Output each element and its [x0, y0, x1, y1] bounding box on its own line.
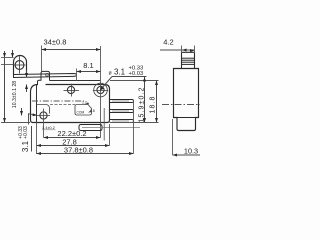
svg-text:4.2: 4.2: [163, 38, 173, 47]
boss lower: [37, 105, 50, 114]
dim stub left upper: [12, 50, 14, 58]
slot COM: [75, 105, 92, 116]
mounting hole upper: [97, 86, 104, 93]
svg-text:+0.03: +0.03: [23, 126, 29, 139]
terminal 2 slot: [112, 110, 129, 112]
svg-text:10.3: 10.3: [184, 146, 198, 155]
leader underline lower: [31, 126, 33, 152]
dim lever gap lower arrow: [26, 85, 28, 93]
hinge rivet: [46, 73, 49, 76]
extension roller top: [1, 57, 14, 59]
terminal 3 slot: [112, 120, 129, 122]
deck line: [50, 80, 101, 82]
extension 27.8 / 37.8 left: [36, 123, 38, 155]
extension 34 left: [41, 46, 43, 76]
svg-text:37.8±0.8: 37.8±0.8: [64, 145, 93, 154]
centerline body: [32, 100, 84, 102]
dim lever gap upper arrow: [26, 70, 28, 78]
terminal 1 slot: [112, 100, 129, 102]
bottom terminal tab: [79, 125, 102, 131]
extension 4.2 right: [194, 46, 196, 54]
terminal 1: [110, 100, 134, 103]
body inner edge: [36, 85, 38, 123]
extension roller center: [1, 64, 14, 66]
pivot cross: [64, 90, 80, 92]
svg-text:COM: COM: [77, 111, 85, 115]
roller bracket: [14, 56, 27, 75]
hidden line lower boss: [50, 104, 75, 106]
svg-text:34±0.8: 34±0.8: [44, 38, 67, 47]
svg-text:3.1: 3.1: [21, 140, 30, 152]
extension 10.3 left: [172, 119, 174, 155]
extension line hole lower: [43, 109, 45, 138]
extension 4.2 left: [181, 46, 183, 54]
terminal 2: [110, 110, 134, 113]
plunger ridges: [182, 57, 195, 59]
extension 15.9 top: [110, 80, 159, 82]
centerline side: [162, 104, 200, 106]
svg-text:3.1: 3.1: [114, 68, 126, 77]
plunger side: [182, 52, 195, 68]
hole lower horizontal tick: [37, 115, 51, 117]
svg-text:8.1: 8.1: [83, 61, 93, 70]
hole upper horizontal tick: [93, 90, 108, 92]
svg-text:10.3±0.1 28: 10.3±0.1 28: [12, 81, 18, 108]
bottom tab slot and extension: [82, 127, 140, 129]
svg-text:3.4±0.2: 3.4±0.2: [42, 126, 55, 130]
body outline: [31, 85, 110, 123]
side block top edge: [177, 117, 196, 119]
lever: [14, 74, 77, 78]
pivot circle: [67, 86, 74, 93]
roller pin vertical: [19, 56, 21, 73]
extension tab right: [103, 108, 105, 141]
boss upper: [94, 83, 108, 97]
extension line hole upper: [100, 46, 102, 138]
extension 27.8 right: [109, 124, 111, 146]
extension 37.8 right: [133, 100, 135, 154]
extension 8.1 left: [76, 69, 78, 81]
hinge bump: [38, 71, 50, 84]
leader lower: [29, 114, 34, 125]
extension bottom line: [1, 122, 30, 124]
roller center horizontal: [14, 64, 26, 66]
leader underline upper: [112, 76, 147, 78]
mounting hole lower: [40, 112, 47, 119]
leader upper: [102, 77, 113, 89]
roller: [15, 61, 24, 70]
dim 10.3 left pointer stub: [21, 108, 23, 116]
svg-text:18.8: 18.8: [150, 95, 157, 113]
side body: [174, 69, 199, 131]
terminal 3: [110, 120, 134, 123]
